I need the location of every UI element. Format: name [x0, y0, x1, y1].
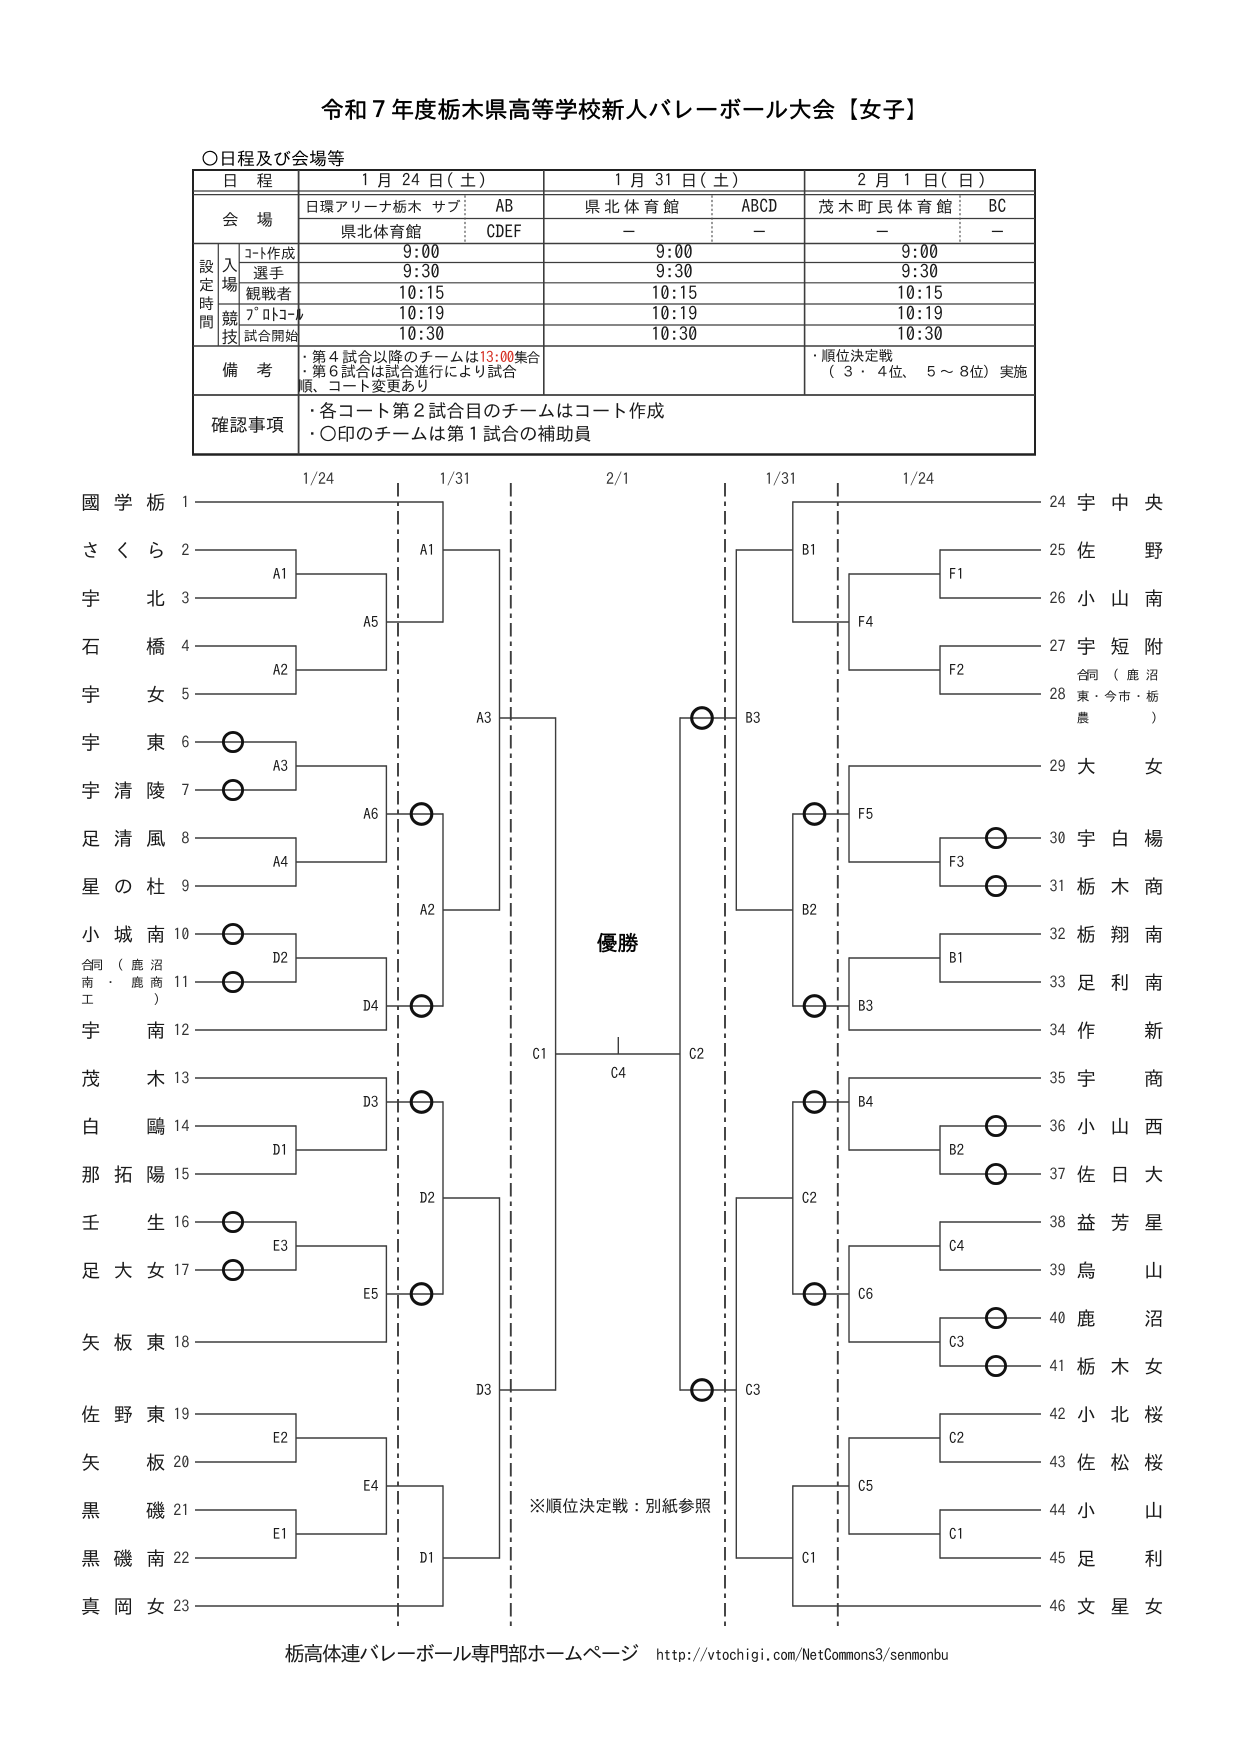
match D4 round2 (circle) [385, 957, 387, 1030]
match C6 round2 (circle) [848, 1245, 850, 1342]
table row line: remark row top [193, 345, 1035, 347]
team 34 作新 line [849, 1029, 1041, 1031]
team 20 矢板 line [195, 1461, 296, 1463]
confirm line1 [311, 402, 664, 419]
team 19 佐野東 line [195, 1413, 296, 1415]
match F3 round1 (30v31) [939, 837, 941, 886]
table header: date row labels [225, 174, 235, 187]
champion label [597, 933, 638, 952]
remark col1 line3 [299, 379, 427, 393]
match B2 round3 [792, 813, 794, 1006]
table venue label [223, 212, 238, 226]
ranking note [531, 1498, 711, 1513]
match B3 round2 (circle) [848, 957, 850, 1030]
team 33 足利南 line [940, 981, 1041, 983]
venue row2 col2 dashes [623, 231, 634, 232]
remark label [223, 362, 238, 377]
team 1 國学栃 line [195, 501, 443, 503]
confirm line2 [311, 425, 591, 442]
table date 1/31(Sat) [616, 173, 619, 185]
table row lines: time rows [239, 262, 1035, 264]
team 45 足利 line [940, 1557, 1041, 1559]
team 14 白鷗 line [195, 1125, 296, 1127]
match A1 round1 (2v3) [295, 549, 297, 598]
team 9 星の杜 line [195, 885, 296, 887]
venue row2 col3 dashes [877, 231, 888, 232]
match C3 round1 (40v41) [939, 1317, 941, 1366]
team 16 壬生 line [195, 1221, 296, 1223]
team 26 小山南 line [940, 597, 1041, 599]
match C5 round2 [848, 1437, 850, 1534]
team 27 宇短附 line [940, 645, 1041, 647]
team 15 那拓陽 line [195, 1173, 296, 1175]
team 11 (combined) line [195, 981, 296, 983]
match C1 round1 (44v45) [939, 1509, 941, 1558]
team 43 佐松桜 line [940, 1461, 1041, 1463]
match A4 round1 (8v9) [295, 837, 297, 886]
time values col1 [404, 244, 439, 258]
remark col3 line1 [814, 349, 892, 362]
match E5 round2 (circle) [385, 1245, 387, 1342]
round date header 1/31 left [441, 471, 468, 485]
match B2 round1 (36v37) [939, 1125, 941, 1174]
match F5 round2 (circle) [848, 765, 850, 862]
time row labels [245, 247, 294, 260]
table row line: venue rows [299, 218, 1035, 220]
table date 1/24(Sat) [363, 173, 366, 185]
match E4 round2 [385, 1437, 387, 1534]
helper circles on right team lines [986, 828, 1005, 847]
final line C4 [556, 1053, 680, 1055]
section heading [203, 150, 344, 166]
competition vertical label [222, 311, 237, 326]
time values col3 [902, 244, 937, 258]
team 6 宇東 line [195, 741, 296, 743]
team 18 矢板東 line [195, 1341, 386, 1343]
team 2 さくら line [195, 549, 296, 551]
confirm label [212, 416, 284, 433]
team 36 小山西 line [940, 1125, 1041, 1127]
team 10 小城南 line [195, 933, 296, 935]
team 32 栃翔南 line [940, 933, 1041, 935]
table row line: confirm row top [193, 394, 1035, 396]
match D3 round4 quarterfinal [499, 1197, 501, 1558]
team 41 栃木女 line [940, 1365, 1041, 1367]
venue row1 col1 [308, 200, 421, 213]
team 17 足大女 line [195, 1269, 296, 1271]
match D3 round2 (circle) [385, 1077, 387, 1150]
match C1 round3 [792, 1485, 794, 1606]
team 24 宇中央 line [793, 501, 1041, 503]
match A2 round3 [442, 813, 444, 1006]
match D1 round1 (14v15) [295, 1125, 297, 1174]
team 22 黒磯南 line [195, 1557, 296, 1559]
match C2 round3 [792, 1101, 794, 1294]
match C2 round1 (42v43) [939, 1413, 941, 1462]
team 3 宇北 line [195, 597, 296, 599]
team 37 佐日大 line [940, 1173, 1041, 1175]
team 28 combined name (Kanuma-Higashi/Imaichi/Tochino) [1077, 669, 1157, 681]
match D2 round3 [442, 1101, 444, 1294]
team 21 黒磯 line [195, 1509, 296, 1511]
remark col1 line2 [304, 364, 517, 378]
document title [322, 99, 913, 121]
team 11 combined name (Kanuma-Minami/Kasho-Ko) [82, 959, 162, 971]
team 31 栃木商 line [940, 885, 1041, 887]
table row line: double rule under date row [193, 190, 1035, 192]
match E1 round1 (21v22) [295, 1509, 297, 1558]
footer url [657, 1647, 947, 1662]
team 12 宇南 line [195, 1029, 386, 1031]
match A2 round1 (4v5) [295, 645, 297, 694]
match C3 round4 quarterfinal (circle) [735, 1197, 737, 1558]
match B1 round3 [792, 501, 794, 622]
team 42 小北桜 line [940, 1413, 1041, 1415]
team 46 文星女 line [793, 1605, 1041, 1607]
team 13 茂木 line [195, 1077, 386, 1079]
venue row2 col1 [342, 224, 421, 239]
match F4 round2 [848, 573, 850, 670]
match F2 round1 (27v28) [939, 645, 941, 694]
team 23 真岡女 line [195, 1605, 443, 1607]
match C1 semifinal left [555, 717, 557, 1390]
table column lines [298, 170, 300, 455]
entry vertical label [222, 258, 237, 272]
team 4 石橋 line [195, 645, 296, 647]
team 39 烏山 line [940, 1269, 1041, 1271]
round date header 1/24 left [304, 471, 334, 485]
venue row1 col2 [586, 199, 679, 214]
table date 2/1(Sun) [858, 173, 865, 185]
match E3 round1 (16v17) [295, 1221, 297, 1270]
match D2 round1 (10v11) [295, 933, 297, 982]
match B4 round2 (circle) [848, 1077, 850, 1150]
match C4 round1 (38v39) [939, 1221, 941, 1270]
team 40 鹿沼 line [940, 1317, 1041, 1319]
venue row1 col3 [819, 199, 952, 214]
team 28 (combined) line [940, 693, 1041, 695]
round date header 1/31 right [767, 471, 794, 485]
match A3 round4 quarterfinal [499, 549, 501, 910]
match B1 round1 (32v33) [939, 933, 941, 982]
team 44 小山 line [940, 1509, 1041, 1511]
round separator dashed lines [397, 483, 399, 1631]
match F1 round1 (25v26) [939, 549, 941, 598]
team 30 宇白楊 line [940, 837, 1041, 839]
time values col2 [657, 244, 692, 258]
table outer border [192, 169, 1036, 171]
match A1 round3 [442, 501, 444, 622]
footer homepage text [285, 1644, 638, 1663]
match D1 round3 [442, 1485, 444, 1606]
team 29 大女 line [849, 765, 1041, 767]
match C2 semifinal right [679, 717, 681, 1390]
match E2 round1 (19v20) [295, 1413, 297, 1462]
team 8 足清風 line [195, 837, 296, 839]
match B3 round4 quarterfinal (circle) [735, 549, 737, 910]
match A5 round2 [385, 573, 387, 670]
team 5 宇女 line [195, 693, 296, 695]
team 35 宇商 line [849, 1077, 1041, 1079]
team 38 益芳星 line [940, 1221, 1041, 1223]
table dotted sub-dividers [464, 196, 466, 244]
time setting vertical label [200, 260, 214, 273]
team 25 佐野 line [940, 549, 1041, 551]
remark col3 line2 [830, 365, 1027, 378]
match A3 round1 (6v7) [295, 741, 297, 790]
round date header 2/1 center [607, 471, 627, 485]
match A6 round2 (circle) [385, 765, 387, 862]
team 7 宇清陵 line [195, 789, 296, 791]
remark col1 line1 [304, 350, 479, 364]
round date header 1/24 right [904, 471, 934, 485]
helper circles on left team lines [223, 732, 242, 751]
